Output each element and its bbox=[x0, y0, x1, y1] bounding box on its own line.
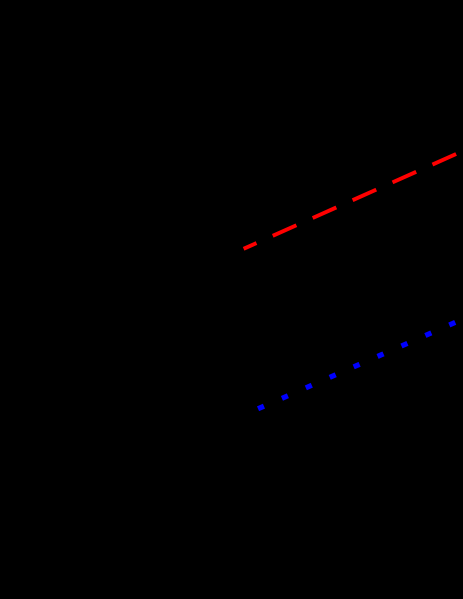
red dashed series bbox=[244, 154, 457, 249]
blue dotted series bbox=[258, 322, 455, 408]
